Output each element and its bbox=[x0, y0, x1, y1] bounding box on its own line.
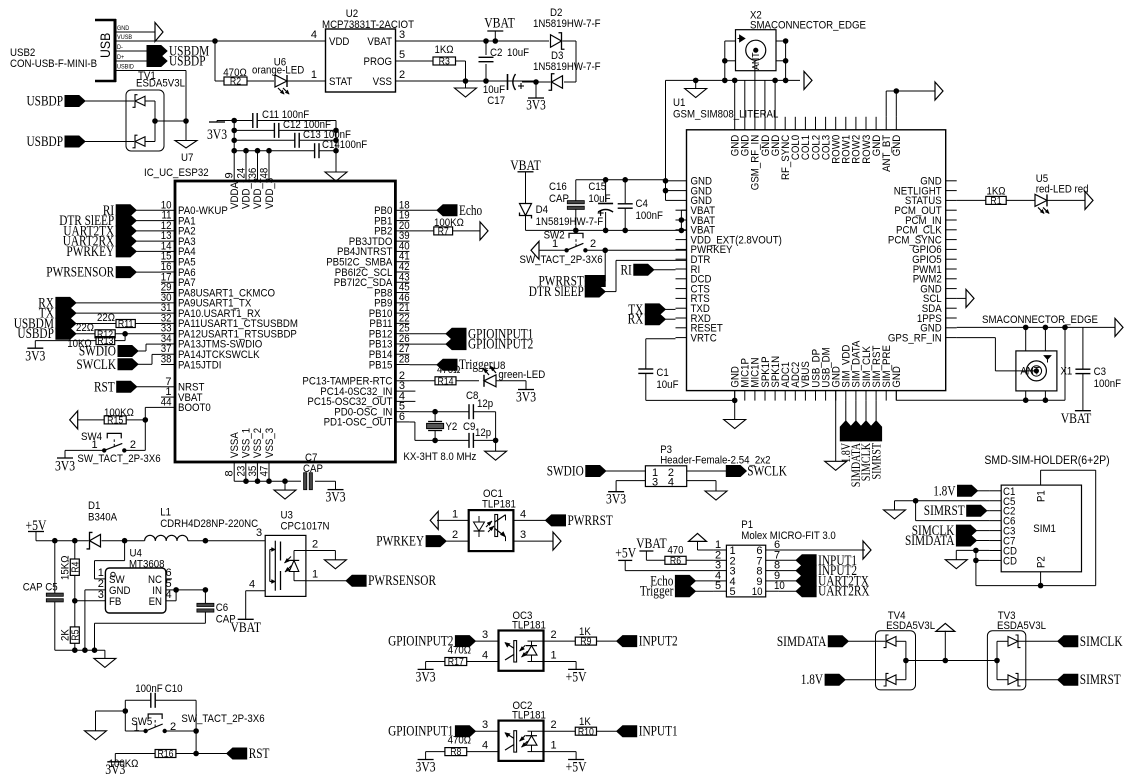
svg-text:CAP: CAP bbox=[303, 463, 323, 475]
svg-text:BOOT0: BOOT0 bbox=[178, 402, 211, 414]
net flag UART2TX at P1 bbox=[779, 573, 870, 589]
pin SPK1P of U1 bottom bbox=[760, 356, 772, 400]
pin 43 PB7I2C_SDA of ESP32 bbox=[334, 271, 410, 289]
resistor R9 1K bbox=[575, 626, 616, 648]
X1 bottom rail bbox=[896, 327, 1065, 400]
wire L1 to U3 bbox=[188, 527, 265, 544]
svg-text:12p: 12p bbox=[477, 398, 493, 410]
svg-text:C9: C9 bbox=[463, 421, 475, 433]
svg-text:ANT: ANT bbox=[1020, 366, 1040, 378]
svg-text:C10: C10 bbox=[165, 683, 183, 695]
svg-text:GND: GND bbox=[117, 25, 130, 32]
wire cap right rail bbox=[333, 121, 339, 173]
power flag 3V3 at R16 bbox=[105, 762, 125, 778]
svg-text:VSS_3: VSS_3 bbox=[264, 428, 276, 458]
TV4 bottom diode bbox=[884, 661, 906, 687]
net flag DTR SlEEP at ESP32 bbox=[59, 213, 161, 229]
pin D- of USB2 bbox=[115, 44, 147, 51]
pin ANT_BT of U1 top bbox=[881, 117, 893, 172]
pin MIC1P of U1 bottom bbox=[740, 358, 752, 401]
capacitor C4 100nF bbox=[618, 180, 663, 231]
svg-text:USB: USB bbox=[97, 33, 113, 58]
svg-text:U1: U1 bbox=[673, 97, 685, 109]
svg-text:PWRKEY: PWRKEY bbox=[66, 244, 114, 260]
resistor R8 470 bbox=[445, 735, 471, 759]
wire USBID to U7 junction bbox=[183, 71, 189, 141]
resistor R11 22ohm bbox=[97, 312, 161, 330]
power flag VBAT at C3 bbox=[1061, 411, 1092, 427]
pin PCM_SYNC of U1 right bbox=[888, 234, 957, 246]
svg-text:VSS: VSS bbox=[373, 76, 392, 88]
ground under C9 bbox=[485, 440, 507, 460]
wire C5 to ground loop bbox=[895, 498, 990, 521]
svg-text:SIMDATA: SIMDATA bbox=[905, 533, 955, 549]
pin GND of U1 bottom bbox=[831, 366, 843, 401]
svg-text:5: 5 bbox=[730, 586, 736, 598]
svg-text:P2: P2 bbox=[1035, 556, 1047, 568]
wire GPS_RF_IN to X1 bbox=[957, 338, 1037, 371]
svg-text:R17: R17 bbox=[448, 657, 464, 668]
net flag SWDIO bbox=[79, 344, 161, 360]
pin 36 VDD_2 of ESP32 top bbox=[247, 168, 264, 209]
svg-text:PWRRST: PWRRST bbox=[568, 513, 613, 529]
pin USB_DM of U1 bottom bbox=[820, 347, 832, 400]
svg-text:EN: EN bbox=[149, 596, 162, 608]
net flag UART2TX at ESP32 bbox=[63, 223, 161, 239]
svg-text:1: 1 bbox=[311, 69, 317, 81]
net flag INPUT1 at P1 bbox=[779, 553, 857, 569]
wire OC2 pin1 to +5V bbox=[575, 752, 577, 760]
wire R2 to U6 bbox=[247, 80, 274, 82]
wire SW4 pin1 to 3V3 bbox=[65, 450, 104, 458]
pin TXD of U1 left bbox=[676, 303, 710, 315]
svg-text:R5: R5 bbox=[71, 629, 82, 641]
wire R17 to 3V3 bbox=[426, 662, 445, 670]
svg-text:4: 4 bbox=[249, 579, 255, 591]
pin 21 PB10 of ESP32 bbox=[369, 302, 410, 320]
pin 5 PD0-OSC_IN of ESP32 bbox=[334, 401, 409, 419]
pin SIM_PRE of U1 bottom bbox=[881, 345, 893, 401]
wire SCL to arrow bbox=[957, 297, 966, 299]
wire 3V3 rail vertical bbox=[231, 118, 237, 181]
open arrow at R7 bbox=[480, 222, 488, 240]
open arrow at X2 rail bbox=[804, 71, 812, 89]
optocoupler OC1 TLP181 box bbox=[469, 488, 516, 551]
svg-text:1: 1 bbox=[312, 569, 318, 581]
pin 5 of P1 bbox=[713, 580, 735, 598]
pin 2 of OC2 bbox=[544, 719, 576, 731]
wire VSS rail bbox=[466, 78, 537, 84]
pin RTS of U1 left bbox=[676, 293, 710, 305]
svg-text:ESDA5V3L: ESDA5V3L bbox=[136, 78, 185, 90]
svg-text:C4: C4 bbox=[636, 198, 648, 210]
net flag GPIOINPUT1 at OC2 bbox=[388, 724, 475, 740]
pin 37 PA14JTCKSWCLK of ESP32 bbox=[161, 343, 260, 361]
capacitor C2 10uF bbox=[479, 41, 530, 81]
power flag VBAT at P1 bbox=[636, 536, 667, 552]
net flag SIMRST at TV3 bbox=[1058, 672, 1121, 688]
net flag RI at ESP32 bbox=[103, 203, 161, 219]
pin P2 of SIM1 bbox=[1035, 556, 1047, 585]
svg-text:5: 5 bbox=[399, 49, 405, 61]
svg-text:100nF: 100nF bbox=[1094, 378, 1122, 390]
svg-text:15KΩ: 15KΩ bbox=[60, 556, 72, 581]
svg-text:USBDP: USBDP bbox=[169, 54, 206, 70]
net flag SWCLK at P3 bbox=[687, 464, 788, 480]
svg-text:PROG: PROG bbox=[364, 56, 393, 68]
SMA connector X1 bbox=[1016, 351, 1072, 391]
pin RXD of U1 left bbox=[676, 313, 711, 325]
OC1 light arrows bbox=[486, 521, 494, 532]
wire USBDP to R12 bbox=[76, 333, 95, 335]
open arrow at SCL bbox=[966, 289, 974, 307]
wire C7 to 3V3 bbox=[335, 481, 337, 489]
pin VBAT of U1 left bbox=[676, 205, 716, 217]
svg-text:3: 3 bbox=[98, 589, 104, 601]
svg-text:CON-USB-F-MINI-B: CON-USB-F-MINI-B bbox=[10, 58, 97, 70]
svg-text:U7: U7 bbox=[181, 152, 193, 164]
pin 2 of P1 bbox=[713, 549, 735, 567]
resistor R7 100K at PB2 bbox=[409, 217, 480, 238]
ground at P3 bbox=[705, 491, 727, 500]
svg-text:GPIOINPUT1: GPIOINPUT1 bbox=[388, 724, 453, 740]
wire C17 to D3 node bbox=[522, 79, 551, 85]
wire P1 pin6 to arrow bbox=[779, 549, 865, 551]
open arrow at OC1 pin3 bbox=[553, 532, 561, 550]
pin SCL of U1 right bbox=[923, 293, 957, 305]
resistor R15 100K bbox=[104, 407, 145, 427]
svg-text:VBAT: VBAT bbox=[230, 620, 261, 636]
svg-text:SWCLK: SWCLK bbox=[747, 464, 787, 480]
svg-text:VSS_1: VSS_1 bbox=[241, 428, 253, 458]
OC1 inner transistor bbox=[495, 515, 506, 542]
pin 2 of OC3 bbox=[544, 629, 576, 641]
svg-text:D1: D1 bbox=[88, 500, 100, 512]
pin 31 PA10.USART1_RX of ESP32 bbox=[161, 302, 261, 320]
pin 3 of OC1 bbox=[513, 529, 553, 541]
label SMACONNECTOR_EDGE at X1 bbox=[982, 314, 1098, 326]
svg-text:PWRSENSOR: PWRSENSOR bbox=[368, 573, 436, 589]
pin 41 PB5I2C_SMBA of ESP32 bbox=[326, 251, 409, 269]
svg-text:SWDIO: SWDIO bbox=[547, 464, 584, 480]
net flag SIMDATA down bbox=[848, 401, 863, 488]
svg-text:100nF: 100nF bbox=[636, 210, 664, 222]
pin 6 of P1 bbox=[756, 539, 780, 557]
pin 3 of OC2 bbox=[475, 719, 498, 731]
pin VBAT of U1 left bbox=[676, 225, 716, 237]
pin 4 EN of U4 bbox=[149, 589, 177, 608]
ground at U2 VSS bbox=[455, 81, 477, 97]
svg-text:1K: 1K bbox=[579, 716, 591, 728]
ground flag arrow on USB GND bbox=[155, 23, 163, 42]
svg-text:TLP181: TLP181 bbox=[482, 499, 516, 511]
resistor R13 10K pullup bbox=[67, 336, 115, 350]
svg-text:RST: RST bbox=[94, 379, 115, 395]
pin ADC2 of U1 bottom bbox=[790, 362, 802, 401]
pin GND of U1 left bbox=[676, 195, 713, 207]
resistor R4 15K bbox=[60, 541, 82, 601]
connector P1 Molex MICRO-FIT 3.0 box bbox=[726, 519, 835, 597]
TVS diode array TV1 U7 box bbox=[126, 70, 164, 151]
svg-text:SMACONNECTOR_EDGE: SMACONNECTOR_EDGE bbox=[750, 19, 866, 31]
net flag SWCLK bbox=[76, 354, 161, 372]
svg-text:PD1-OSC_OUT: PD1-OSC_OUT bbox=[324, 417, 393, 429]
svg-text:100KΩ: 100KΩ bbox=[104, 407, 134, 419]
svg-text:USBID: USBID bbox=[117, 64, 134, 71]
wire U1 left GND rail bbox=[663, 80, 676, 200]
X2 ground rail bbox=[666, 78, 801, 84]
diode D1 B340A bbox=[87, 500, 118, 549]
pin RF_SYNC of U1 top bbox=[780, 117, 792, 180]
svg-text:INPUT1: INPUT1 bbox=[639, 724, 678, 740]
pin 26 PB13 of ESP32 bbox=[369, 333, 410, 351]
capacitor C10 100nF bbox=[125, 683, 196, 708]
connector USB2 CON-USB-F-MINI-B bbox=[10, 19, 116, 82]
pin CD of SIM1 bbox=[989, 546, 1017, 558]
capacitor C1 10uF bbox=[638, 339, 737, 403]
svg-text:4: 4 bbox=[520, 509, 526, 521]
power flag 3V3 at OC3 bbox=[416, 669, 436, 685]
svg-text:GND: GND bbox=[891, 366, 903, 388]
capacitor C14 100nF bbox=[234, 139, 367, 158]
svg-text:R3: R3 bbox=[439, 57, 451, 68]
svg-text:10uF: 10uF bbox=[507, 47, 529, 59]
wire U6 to STAT bbox=[287, 80, 290, 82]
svg-text:4: 4 bbox=[482, 650, 488, 662]
resistor R12 22ohm bbox=[76, 322, 161, 340]
pin 27 PB14 of ESP32 bbox=[369, 343, 410, 361]
svg-text:VBAT: VBAT bbox=[367, 36, 392, 48]
pin SIM_DATA of U1 bottom bbox=[851, 340, 863, 401]
svg-text:ANT: ANT bbox=[751, 52, 762, 70]
pin 1 of OC3 bbox=[544, 650, 577, 662]
pin 14 PA4 of ESP32 bbox=[161, 240, 196, 258]
pin C2 of SIM1 bbox=[989, 506, 1015, 518]
zener diode bottom in U7 bbox=[133, 121, 156, 148]
wire U5 to arrow bbox=[1047, 199, 1085, 201]
LED U5 red bbox=[1006, 173, 1088, 213]
pin PCM_IN of U1 right bbox=[905, 215, 957, 227]
pin PCM_CLK of U1 right bbox=[896, 225, 957, 237]
TVS array TV3 ESDA5V3L box bbox=[987, 610, 1046, 690]
resistor R14 470 at PC13 bbox=[409, 364, 479, 388]
svg-text:38: 38 bbox=[161, 354, 172, 366]
pin 40 PB4JNTRST of ESP32 bbox=[337, 240, 410, 258]
svg-text:22Ω: 22Ω bbox=[76, 322, 94, 334]
wire CD pins bbox=[973, 548, 989, 586]
open arrow at SW2 bbox=[531, 241, 567, 259]
wire TV4 to center bbox=[906, 658, 948, 664]
net flag UART2RX at ESP32 bbox=[63, 234, 161, 250]
wire P1 pin3 to +5V bbox=[625, 560, 713, 570]
pin VRTC of U1 left bbox=[676, 332, 717, 344]
pin GND of U1 top bbox=[730, 117, 742, 157]
svg-text:D+: D+ bbox=[117, 54, 124, 61]
svg-text:3: 3 bbox=[652, 477, 658, 489]
net flag DTR SlEEP bbox=[529, 284, 605, 300]
pin SDA of U1 right bbox=[922, 303, 957, 315]
svg-text:47: 47 bbox=[259, 466, 271, 477]
pin DTR of U1 left bbox=[676, 254, 711, 266]
net flag INPUT1 at OC2 bbox=[617, 724, 678, 740]
pin 5 IN of U4 bbox=[152, 578, 179, 597]
microcontroller IC1 IC_UC_ESP32 box bbox=[144, 167, 395, 462]
X1 top pins bbox=[1026, 327, 1046, 351]
svg-text:PWRKEY: PWRKEY bbox=[376, 534, 424, 550]
power flag +5V at P1 bbox=[615, 546, 636, 562]
wire GND top rail at C16 bbox=[576, 177, 667, 183]
pin VSS of U2 bbox=[373, 69, 466, 88]
pin 10 of P1 bbox=[752, 580, 785, 598]
wire SW5 pin1 bbox=[125, 730, 145, 732]
label TV1 ESDA5V3L bbox=[136, 78, 185, 90]
svg-text:1: 1 bbox=[133, 722, 139, 734]
svg-text:SW_TACT_2P-3X6: SW_TACT_2P-3X6 bbox=[520, 254, 603, 266]
pin 2 GND of U4 bbox=[85, 578, 131, 597]
switch SW2 bbox=[520, 230, 603, 267]
capacitor C6 CAP bbox=[197, 590, 236, 626]
net flag SIMDATA at TV4 bbox=[777, 634, 885, 650]
svg-text:CAP: CAP bbox=[23, 582, 43, 594]
diode D3 1N5819HW-7-F bbox=[533, 50, 601, 90]
svg-text:GPIOINPUT2: GPIOINPUT2 bbox=[388, 634, 453, 650]
svg-text:CAP: CAP bbox=[549, 193, 569, 205]
svg-text:C3: C3 bbox=[1094, 366, 1106, 378]
power flag +5V at OC2 bbox=[566, 759, 587, 775]
diode D4 1N5819HW-7-F bbox=[520, 204, 604, 229]
pin COL0 of U1 top bbox=[790, 117, 802, 160]
ground at SIM1 C5 bbox=[884, 510, 906, 519]
pin COL2 of U1 top bbox=[810, 117, 822, 160]
svg-text:INPUT2: INPUT2 bbox=[639, 634, 678, 650]
svg-text:VSSA: VSSA bbox=[229, 432, 241, 458]
pin 15 PA5 of ESP32 bbox=[161, 251, 196, 269]
wire OC3 pin1 to +5V bbox=[575, 662, 577, 670]
pin 3 of OC3 bbox=[475, 629, 498, 641]
net flag PWRKEY at ESP32 bbox=[66, 244, 161, 260]
svg-text:3V3: 3V3 bbox=[606, 492, 626, 508]
svg-text:R11: R11 bbox=[118, 319, 134, 330]
pin ROW0 of U1 top bbox=[831, 117, 843, 164]
pin 11 PA1 of ESP32 bbox=[161, 210, 196, 228]
capacitor C9 12p bbox=[435, 421, 498, 448]
ground at SW5 bbox=[85, 731, 107, 740]
pin 4 PC15-OSC32_OUT of ESP32 bbox=[307, 390, 415, 408]
net flag 1.8V down bbox=[838, 401, 853, 463]
power flag +5V bbox=[26, 518, 47, 541]
net flag 1.8V at SIM1 bbox=[933, 483, 989, 499]
svg-text:3V3: 3V3 bbox=[325, 490, 345, 506]
svg-text:VDD_1: VDD_1 bbox=[241, 178, 253, 209]
wire D4 to VBAT rail bbox=[526, 216, 687, 233]
pin SPK1N of U1 bottom bbox=[770, 356, 782, 401]
svg-text:R9: R9 bbox=[580, 637, 592, 648]
wire to ground at SW5 bbox=[96, 711, 126, 731]
svg-text:USBDP: USBDP bbox=[27, 94, 64, 110]
pin 20 PB2 of ESP32 bbox=[374, 220, 410, 238]
ground under X2 rail bbox=[685, 80, 707, 97]
ground under C14 rail bbox=[325, 172, 347, 181]
net flag SIMRST down bbox=[868, 401, 883, 480]
pin 10 PA0-WKUP of ESP32 bbox=[161, 199, 228, 217]
ground under VSS rail bbox=[274, 481, 296, 499]
svg-text:6: 6 bbox=[399, 411, 405, 423]
svg-text:470: 470 bbox=[667, 545, 683, 557]
svg-text:470Ω: 470Ω bbox=[437, 364, 460, 376]
svg-text:SW_TACT_2P-3X6: SW_TACT_2P-3X6 bbox=[181, 713, 264, 725]
wire DTR SlEEP to DTR pin bbox=[605, 260, 686, 291]
optocoupler OC2 TLP181 box bbox=[499, 700, 546, 761]
pin 2 of U3 bbox=[306, 539, 336, 551]
pin VDD of U2 bbox=[212, 29, 349, 48]
wire VBAT pins rail bbox=[679, 210, 687, 230]
X2 left pins bbox=[722, 41, 736, 83]
pin 42 PB6I2C_SCL of ESP32 bbox=[335, 261, 410, 279]
svg-text:VDD: VDD bbox=[329, 36, 349, 48]
GSM module U1 GSM_SIM808_LITERAL box bbox=[673, 97, 946, 391]
power flag 3V3 under D3 bbox=[526, 82, 546, 114]
net flag PWRSENSOR at U3 bbox=[346, 573, 436, 589]
svg-text:100KΩ: 100KΩ bbox=[434, 217, 464, 229]
net flag TX at ESP32 bbox=[39, 306, 161, 322]
pin 1 SW of U4 bbox=[95, 567, 126, 586]
pin 7 of P1 bbox=[756, 549, 780, 567]
wire R13 to R12 node bbox=[115, 334, 125, 341]
wire R13 to 3V3 bbox=[35, 341, 96, 349]
svg-text:SMD-SIM-HOLDER(6+2P): SMD-SIM-HOLDER(6+2P) bbox=[984, 453, 1109, 467]
pin GND of U1 left bbox=[676, 185, 713, 197]
svg-text:KX-3HT 8.0 MHz: KX-3HT 8.0 MHz bbox=[403, 451, 476, 463]
svg-text:CDRH4D28NP-220NC: CDRH4D28NP-220NC bbox=[160, 518, 258, 530]
svg-text:SIMRST: SIMRST bbox=[1080, 672, 1121, 688]
boost IC U4 MT3608 box bbox=[105, 548, 165, 614]
svg-text:3V3: 3V3 bbox=[416, 759, 436, 775]
svg-text:5: 5 bbox=[715, 580, 721, 592]
wire BOOT0 to R15 bbox=[143, 407, 162, 422]
net flag PWRRST under SW2 bbox=[585, 250, 605, 286]
svg-text:DTR SlEEP: DTR SlEEP bbox=[529, 284, 584, 300]
svg-text:SIM1: SIM1 bbox=[1033, 523, 1056, 535]
pin VBAT of U2 bbox=[367, 29, 486, 48]
svg-text:VDDA: VDDA bbox=[229, 182, 241, 209]
svg-text:R8: R8 bbox=[450, 747, 462, 758]
OC1 inner led bbox=[474, 516, 485, 537]
pin PWM1 of U1 right bbox=[913, 264, 957, 276]
open arrow at R15 bbox=[70, 411, 105, 429]
wire R8 to 3V3 bbox=[426, 752, 445, 760]
capacitor C3 100nF bbox=[1075, 327, 1121, 410]
svg-text:28: 28 bbox=[399, 354, 410, 366]
net flag SWDIO at P3 bbox=[547, 464, 646, 480]
svg-text:48: 48 bbox=[259, 168, 271, 179]
crystal Y2 KX-3HT bbox=[403, 412, 476, 463]
pin 44 BOOT0 of ESP32 bbox=[161, 396, 211, 414]
pin GND of U1 top bbox=[770, 117, 782, 157]
wire R16 to 3V3 bbox=[114, 754, 116, 762]
svg-text:IC_UC_ESP32: IC_UC_ESP32 bbox=[144, 167, 209, 179]
net flag RX at U1 bbox=[628, 312, 676, 328]
svg-text:3: 3 bbox=[256, 527, 262, 539]
pin MIC1N of U1 bottom bbox=[750, 357, 762, 400]
resistor R17 470 bbox=[445, 645, 471, 669]
net flag USBDP bbox=[147, 54, 206, 70]
wire VDD_1 stub bbox=[243, 148, 249, 181]
net flag GPIOINPUT2 at PB13 bbox=[409, 337, 533, 353]
svg-text:STAT: STAT bbox=[329, 76, 353, 88]
net flag Trigger at P1 bbox=[640, 584, 714, 600]
pin NETLIGHT of U1 right bbox=[894, 185, 957, 197]
svg-text:X1: X1 bbox=[1061, 366, 1073, 378]
